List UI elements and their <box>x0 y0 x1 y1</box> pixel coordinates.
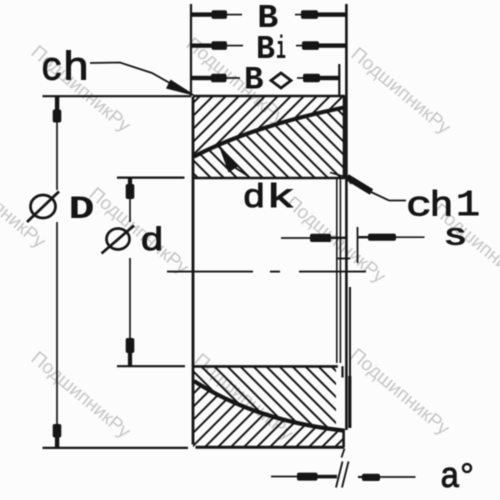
bore right edge double line 2 <box>339 179 341 363</box>
label diameter D <box>31 195 56 218</box>
dim d vertical + arrows <box>126 178 135 367</box>
svg-text:1: 1 <box>456 185 480 226</box>
bearing bottom edge <box>196 446 345 449</box>
extension line D bottom <box>43 447 189 449</box>
a dim arrows <box>271 473 416 481</box>
svg-text:S: S <box>445 223 466 253</box>
hatch inner ring top section <box>120 100 412 184</box>
outer ring right face top <box>343 96 346 178</box>
dk leader <box>231 165 248 176</box>
bore right edge double line 1 <box>336 179 338 363</box>
centerline dash-dot <box>167 271 366 273</box>
dk arrow <box>218 144 238 173</box>
label diameter d <box>107 229 130 250</box>
ch1 arrow <box>347 177 372 192</box>
sphere surface curve bottom <box>194 381 343 431</box>
svg-text:c: c <box>41 48 63 93</box>
extension line D top <box>43 95 192 97</box>
svg-text:c: c <box>406 187 432 227</box>
bore top line <box>193 177 345 179</box>
svg-text:D: D <box>69 191 95 228</box>
svg-text:i: i <box>276 31 286 68</box>
dim B arrows <box>191 10 346 19</box>
inner ring right face line <box>345 4 348 430</box>
bearing left edge <box>192 97 195 445</box>
dim D vertical + arrows <box>53 96 62 448</box>
bore bottom line <box>193 365 338 368</box>
S tick join <box>336 258 350 260</box>
svg-text:h: h <box>430 187 454 227</box>
a angle tick 2 <box>342 462 349 488</box>
ch arrow <box>166 80 197 97</box>
a angle tick 1 <box>336 462 343 488</box>
extension line d top <box>117 177 185 179</box>
extension line left (B dims) <box>190 4 192 96</box>
S dim arrows <box>281 234 425 242</box>
hatch outer ring top section <box>132 88 416 164</box>
svg-text:d: d <box>140 223 164 260</box>
inner ring face lower parallel segment <box>349 287 351 376</box>
outer ring right face bottom <box>342 429 345 448</box>
ch leader <box>90 63 175 87</box>
hatch inner ring bottom section <box>117 360 414 436</box>
hatch outer ring bottom section <box>122 374 408 452</box>
dim Bo arrows <box>192 74 340 83</box>
svg-text:k: k <box>266 180 295 217</box>
sphere surface curve top (dk surface) <box>194 108 344 157</box>
dim Bi arrows <box>191 41 346 50</box>
svg-text:B: B <box>244 62 264 99</box>
extension line d bottom <box>117 365 185 367</box>
inner ring face short segment <box>341 366 343 377</box>
svg-text:h: h <box>63 48 90 93</box>
svg-text:d: d <box>243 180 266 217</box>
a dim extension from corner <box>342 449 345 458</box>
svg-text:a: a <box>440 457 460 498</box>
ch1 leader <box>371 192 406 201</box>
extension line right Bo <box>338 64 340 96</box>
S tick right <box>357 227 359 263</box>
chamfer line ch1 at bore corner <box>330 173 346 178</box>
bearing top edge <box>193 95 345 98</box>
